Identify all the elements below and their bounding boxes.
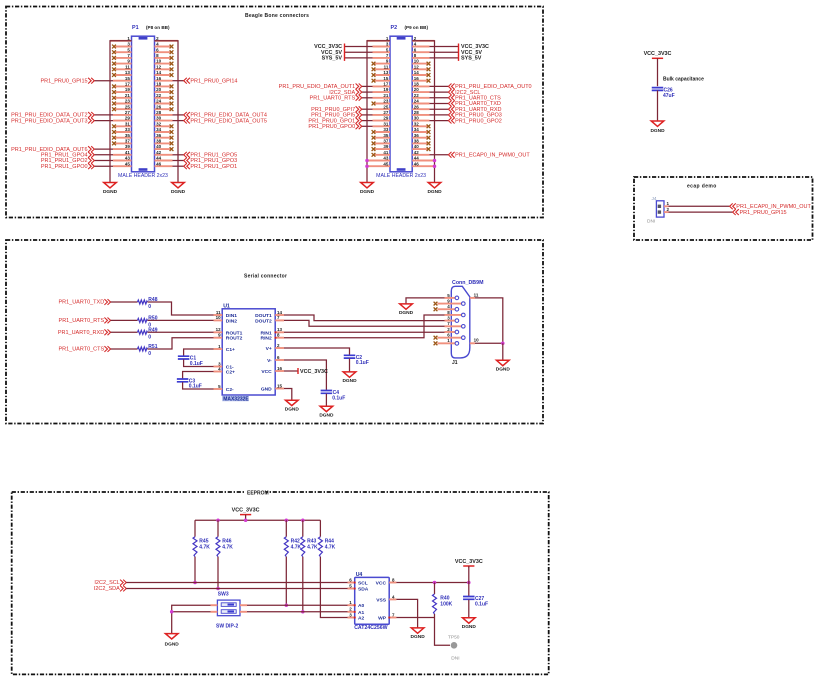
wire P2 pin1 ground rail [367, 41, 390, 183]
wire P2 pin 27 net PR1_PRU0_GPI5 [362, 114, 373, 116]
svg-text:28: 28 [156, 110, 162, 115]
svg-text:15: 15 [277, 383, 283, 388]
capacitor C3 0.1uF [177, 378, 202, 389]
junction R40 top [433, 581, 437, 585]
wire P1 pin 15 net PR1_PRU0_GPI15 [95, 80, 114, 82]
wire SW3 to U4 A0 [247, 604, 355, 606]
label PR1_UART0_TXD [58, 299, 110, 306]
svg-text:PR1_PRU0_GPO2: PR1_PRU0_GPO2 [455, 118, 502, 124]
wire P1 pin 42 net PR1_PRU1_GPO5 [173, 154, 184, 156]
wire P1 pin 27 net PR1_PRU_EDIO_DATA_OUT2 [95, 114, 114, 116]
svg-text:DGND: DGND [399, 310, 414, 316]
svg-text:4.7K: 4.7K [199, 544, 210, 550]
svg-text:PR1_UART0_CTS: PR1_UART0_CTS [58, 347, 104, 353]
label I2C2_SDA [94, 586, 127, 593]
svg-text:46: 46 [414, 161, 420, 166]
junction R46 [216, 587, 220, 591]
svg-text:33: 33 [383, 127, 389, 132]
svg-text:PR1_UART0_TXD: PR1_UART0_TXD [58, 300, 104, 306]
svg-text:4.7K: 4.7K [222, 544, 233, 550]
wire P2 pin 21 net PR1_UART0_RTS [362, 97, 373, 99]
svg-text:10: 10 [474, 338, 480, 343]
wire J1 pin11 shield to pin10 [475, 298, 503, 343]
svg-text:0.1uF: 0.1uF [356, 360, 369, 366]
ground DGND (U4 VSS) [411, 628, 426, 640]
svg-text:24: 24 [414, 99, 420, 104]
svg-text:20: 20 [414, 87, 420, 92]
capacitor C4 0.1uF [321, 390, 346, 401]
svg-text:TP50: TP50 [448, 635, 460, 641]
wire VCC_3V3C down to C27 [468, 566, 470, 596]
label PR1_UART0_TXD [448, 101, 500, 108]
svg-text:SDA: SDA [358, 587, 369, 593]
wire P2 pin 20 net I2C2_SCL [430, 91, 449, 93]
ground DGND (bulk capacitance) [650, 121, 665, 134]
svg-text:33: 33 [125, 127, 131, 132]
svg-text:34: 34 [156, 127, 162, 132]
svg-text:17: 17 [383, 82, 389, 87]
svg-text:16: 16 [277, 366, 283, 371]
junction R42 [285, 603, 289, 607]
svg-text:PR1_PRU0_GPI15: PR1_PRU0_GPI15 [41, 78, 88, 84]
wire P2 pin 42 net PR1_ECAP0_IN_PWM0_OUT [430, 154, 449, 156]
capacitor C26 47uF [652, 87, 675, 99]
svg-text:13: 13 [277, 327, 283, 332]
wire U4 VCC to VCC_3V3C [396, 582, 468, 584]
power label VCC_3V3C (U1) [298, 368, 328, 375]
svg-text:SYS_5V: SYS_5V [322, 56, 343, 62]
svg-text:29: 29 [383, 116, 389, 121]
wire P1 pin 29 net PR1_PRU_EDIO_DATA_OUT3 [95, 120, 114, 122]
wire P1 pin 16 net PR1_PRU0_GPI14 [173, 80, 184, 82]
svg-text:DOUT1: DOUT1 [255, 313, 272, 319]
label PR1_UART0_RTS [59, 318, 111, 325]
label PR1_PRU0_GPI14 [184, 78, 238, 85]
svg-text:J1: J1 [452, 360, 458, 366]
svg-text:31: 31 [125, 121, 131, 126]
op-amp U4 CAT24C256W body [355, 577, 390, 624]
svg-text:11: 11 [216, 310, 221, 315]
power label VCC_3V3C [314, 44, 344, 51]
svg-text:VSS: VSS [376, 597, 387, 603]
wire P2 pin 4 power VCC_3V3C [430, 46, 459, 48]
ground DGND (C4) [319, 406, 334, 418]
label PR1_UART0_RXD [58, 329, 111, 336]
wire C1 to U1 C1- [184, 359, 214, 366]
label PR1_PRU_EDIO_DATA_OUT4 [184, 112, 267, 119]
svg-text:A1: A1 [358, 610, 365, 616]
wire P2 pin2 ground rail [412, 41, 434, 183]
label PR1_UART0_CTS [58, 346, 110, 353]
wire PR1_UART0_CTS to R51 [111, 348, 138, 350]
svg-text:10: 10 [156, 59, 162, 64]
label PR1_PRU0_GPI5 [311, 112, 362, 119]
ground DGND under P2 left [360, 183, 375, 195]
wire P2 pin 28 net PR1_PRU0_GPO3 [430, 114, 449, 116]
wire rail to R45 [194, 520, 196, 537]
svg-text:Bulk capacitance: Bulk capacitance [663, 77, 704, 83]
svg-text:14: 14 [277, 310, 283, 315]
wire P2 pin 26 net PR1_UART0_RXD [430, 108, 449, 110]
svg-text:13: 13 [383, 70, 389, 75]
connector P1 body (MALE HEADER 2x23) [132, 36, 155, 172]
label PR1_PRU1_GPO3 [184, 158, 237, 165]
label PR1_PRU1_GPO4 [41, 152, 94, 159]
svg-text:30: 30 [156, 116, 162, 121]
svg-text:42: 42 [414, 150, 420, 155]
wire R51 to U1 ROUT2 (jog) [148, 338, 214, 349]
svg-text:V-: V- [267, 358, 272, 364]
svg-text:0: 0 [148, 304, 151, 310]
label PR1_PRU_EDIO_DATA_OUT0 [448, 84, 531, 91]
resistor R50 0 [138, 315, 158, 328]
svg-text:SCL: SCL [358, 581, 368, 587]
wire PR1_UART0_RTS to R50 [111, 319, 138, 321]
wire U1 VCC to power label [284, 370, 298, 372]
wire U1 C2+ loop [183, 372, 214, 379]
svg-text:DGND: DGND [285, 407, 300, 413]
svg-text:Conn_DB9M: Conn_DB9M [452, 280, 484, 286]
wire PR1_UART0_RXD to R49 [111, 331, 138, 333]
svg-text:MALE HEADER 2x23: MALE HEADER 2x23 [118, 173, 168, 179]
svg-text:37: 37 [383, 139, 389, 144]
svg-text:PR1_PRU1_GPO1: PR1_PRU1_GPO1 [190, 164, 237, 170]
svg-text:14: 14 [414, 70, 420, 75]
wire P2 pin 5 power VCC_5V [345, 51, 373, 53]
sheet box: Beagle Bone connectors [6, 7, 543, 218]
wire U1 V+ to C2 [284, 348, 350, 355]
svg-text:36: 36 [414, 133, 420, 138]
wire P2 pin 3 power VCC_3V3C [345, 46, 373, 48]
wire U1 C1+ loop [184, 349, 214, 356]
power label SYS_5V [459, 55, 482, 62]
resistor R48 0 [138, 297, 158, 310]
svg-text:35: 35 [383, 133, 389, 138]
svg-text:MAX3232E: MAX3232E [223, 396, 249, 402]
svg-text:DGND: DGND [650, 128, 665, 134]
junction C27 column [467, 581, 471, 585]
svg-text:0.1uF: 0.1uF [475, 601, 488, 607]
wire P2 pin 30 net PR1_PRU0_GPO2 [430, 120, 449, 122]
label PR1_ECAP0_IN_PWM0_OUT [730, 203, 812, 210]
svg-text:WP: WP [378, 616, 387, 622]
svg-text:36: 36 [156, 133, 162, 138]
svg-text:0.1uF: 0.1uF [332, 395, 345, 401]
svg-text:PR1_PRU0_GPI14: PR1_PRU0_GPI14 [190, 78, 237, 84]
wire U1 DOUT2 to J1 pin7 [284, 320, 445, 326]
label PR1_PRU0_GPI7 [311, 106, 362, 113]
svg-text:18: 18 [156, 82, 162, 87]
svg-text:PR1_PRU_EDIO_DATA_OUT5: PR1_PRU_EDIO_DATA_OUT5 [190, 118, 267, 124]
svg-text:DOUT2: DOUT2 [255, 318, 272, 324]
wire R46 to bus [217, 557, 219, 589]
label PR1_PRU1_GPO2 [41, 158, 94, 165]
svg-text:26: 26 [156, 104, 162, 109]
wire C2 to ground [349, 359, 351, 372]
power VCC_3V3C (EEPROM pull-ups) [232, 507, 260, 516]
svg-text:DGND: DGND [103, 189, 118, 195]
svg-text:32: 32 [156, 121, 162, 126]
svg-text:DNI: DNI [451, 656, 459, 662]
wire VCC_3V3C to C26 [657, 58, 659, 86]
sheet box: Serial connector [6, 240, 543, 424]
P1 pin stubs and numbers [110, 36, 178, 166]
svg-text:41: 41 [125, 150, 131, 155]
test point TP50 [448, 635, 460, 649]
svg-text:VCC: VCC [376, 581, 387, 587]
wire P1 pin 46 net PR1_PRU1_GPO1 [173, 165, 184, 167]
svg-text:100K: 100K [440, 602, 452, 608]
U1 pin stubs, numbers and names [214, 310, 285, 393]
svg-text:VCC_3V3C: VCC_3V3C [300, 369, 328, 375]
wire R40 to WP and TP50 [435, 614, 451, 645]
svg-text:C2+: C2+ [226, 370, 235, 376]
svg-text:10: 10 [216, 315, 222, 320]
label PR1_ECAP0_IN_PWM0_OUT [448, 152, 530, 159]
wire C4 to ground [325, 394, 327, 407]
svg-text:35: 35 [125, 133, 131, 138]
ground DGND (SW3) [165, 634, 180, 648]
svg-text:PR1_PRU0_GPI15: PR1_PRU0_GPI15 [740, 210, 787, 216]
svg-text:13: 13 [125, 70, 131, 75]
ground DGND under P1 right [171, 183, 186, 195]
wire R50 to U1 DIN2 [148, 319, 214, 321]
J1 pin circles, stubs and numbers [445, 292, 480, 345]
svg-text:Serial connector: Serial connector [244, 273, 287, 279]
svg-text:0: 0 [148, 351, 151, 357]
op-amp U1 MAX3232 body [222, 309, 275, 401]
junction pull-up rail [244, 518, 248, 522]
svg-text:(P8 on BB): (P8 on BB) [146, 25, 170, 30]
wire VCC to R40 [434, 583, 436, 595]
power label VCC_3V3C [459, 44, 489, 51]
label PR1_PRU_EDIO_DATA_OUT1 [279, 84, 362, 91]
wire R44 to U4 A2 [320, 557, 354, 618]
power VCC_3V3C (C27) [455, 559, 483, 568]
svg-text:44: 44 [156, 156, 162, 161]
svg-text:PR1_UART0_RXD: PR1_UART0_RXD [58, 330, 104, 336]
ground DGND (J1 shield) [496, 360, 511, 372]
svg-text:28: 28 [414, 110, 420, 115]
svg-text:C1+: C1+ [226, 347, 235, 353]
J1 no-connect X marks (pins 9,4,6,1) [434, 302, 445, 346]
wire R49 to U1 ROUT1 [148, 331, 214, 333]
ground DGND (J1 pin5) [399, 304, 414, 316]
wire rail to R44 [319, 520, 321, 537]
label PR1_PRU1_GPO5 [184, 152, 237, 159]
svg-text:29: 29 [125, 116, 131, 121]
wire J4 pin2 net PR1_PRU0_GPI15 [669, 211, 733, 213]
svg-text:21: 21 [383, 93, 389, 98]
label PR1_UART0_RXD [448, 106, 501, 113]
svg-text:DGND: DGND [165, 642, 180, 648]
svg-text:DGND: DGND [171, 189, 186, 195]
ground DGND under P1 left [103, 183, 118, 195]
label PR1_UART0_CTS [448, 95, 501, 102]
svg-text:(P9 on BB): (P9 on BB) [405, 25, 429, 30]
label I2C2_SDA [329, 89, 362, 96]
svg-text:DGND: DGND [342, 378, 357, 384]
capacitor C2 0.1uF [344, 355, 369, 366]
svg-text:SW DIP-2: SW DIP-2 [216, 623, 238, 629]
svg-text:32: 32 [414, 121, 420, 126]
wire rail to R43 [302, 520, 304, 537]
wire I2C2_SCL to U4 SCL [126, 582, 354, 584]
svg-text:15: 15 [125, 76, 131, 81]
wire U4 WP [396, 617, 434, 619]
wire P1 pin 41 net PR1_PRU1_GPO4 [95, 154, 114, 156]
connector J4 [656, 201, 664, 217]
label PR1_PRU_EDIO_DATA_OUT6 [11, 146, 94, 153]
svg-text:34: 34 [414, 127, 420, 132]
junction R43 [301, 610, 305, 614]
U4 pin stubs, numbers and names [348, 577, 397, 621]
wire C26 to ground [657, 90, 659, 121]
svg-text:22: 22 [414, 93, 420, 98]
sheet box: EEPROM [12, 492, 549, 674]
wire rail to R42 [285, 520, 287, 537]
svg-text:24: 24 [156, 99, 162, 104]
resistor R45 4.7K [193, 537, 210, 557]
junction pull-up rail [301, 518, 305, 522]
svg-text:PR1_UART0_RTS: PR1_UART0_RTS [310, 96, 356, 102]
wire P2 pin 29 net PR1_PRU0_GPO1 [362, 120, 373, 122]
svg-text:PR1_UART0_RTS: PR1_UART0_RTS [59, 318, 105, 324]
svg-text:RIN1: RIN1 [261, 330, 272, 336]
wire J1 shield to ground [502, 343, 504, 360]
resistor R43 4.7K [301, 537, 318, 557]
svg-text:C2-: C2- [226, 387, 234, 393]
label PR1_UART0_RTS [310, 95, 362, 102]
svg-text:20: 20 [156, 87, 162, 92]
svg-text:4.7K: 4.7K [307, 544, 318, 550]
wire P2 pin 6 power VCC_5V [430, 51, 459, 53]
svg-text:DIN1: DIN1 [226, 313, 237, 319]
svg-text:11: 11 [474, 292, 479, 297]
wire J1 pin5 to ground [406, 298, 445, 304]
svg-text:SYS_5V: SYS_5V [461, 56, 482, 62]
wire P2 pin 7 power SYS_5V [345, 57, 373, 59]
junction J1 shield [501, 342, 505, 346]
svg-text:CAT24C256W: CAT24C256W [354, 625, 387, 631]
wire P2 pin 8 power SYS_5V [430, 57, 459, 59]
resistor R51 0 [138, 344, 158, 357]
svg-text:38: 38 [156, 139, 162, 144]
svg-text:21: 21 [125, 93, 131, 98]
svg-text:DGND: DGND [462, 624, 477, 630]
svg-text:39: 39 [125, 144, 131, 149]
svg-text:23: 23 [383, 99, 389, 104]
svg-text:VCC: VCC [261, 369, 272, 375]
svg-text:V+: V+ [266, 346, 272, 352]
sheet box: ecap demo [634, 177, 813, 240]
P2 no-connect X marks left [372, 62, 376, 157]
svg-text:Beagle Bone connectors: Beagle Bone connectors [245, 13, 309, 19]
svg-text:25: 25 [125, 104, 131, 109]
wire SW3 pin lower-left [172, 611, 211, 613]
junction pull-up rail [216, 518, 220, 522]
wire SW3 left pins to ground [172, 605, 211, 633]
P2 no-connect X marks right [427, 62, 431, 151]
svg-text:VCC_3V3C: VCC_3V3C [455, 559, 483, 565]
svg-text:30: 30 [414, 116, 420, 121]
wire P2 pin 22 net PR1_UART0_CTS [430, 97, 449, 99]
svg-text:46: 46 [156, 161, 162, 166]
wire U4 VSS to ground [396, 599, 417, 628]
svg-text:DGND: DGND [411, 634, 426, 640]
ground DGND (C27) [462, 618, 477, 630]
wire J1 pin10 shield [475, 342, 503, 344]
svg-text:45: 45 [383, 161, 389, 166]
svg-text:I2C2_SDA: I2C2_SDA [94, 586, 120, 592]
svg-text:38: 38 [414, 139, 420, 144]
svg-text:VCC_3V3C: VCC_3V3C [644, 51, 672, 57]
label PR1_PRU0_GPO1 [308, 118, 361, 125]
svg-text:11: 11 [125, 64, 130, 69]
svg-text:22: 22 [156, 93, 162, 98]
wire P1 pin1 ground rail [110, 41, 132, 183]
wire C27 to ground [468, 600, 470, 618]
svg-text:27: 27 [125, 110, 131, 115]
svg-text:PR1_PRU_EDIO_DATA_OUT3: PR1_PRU_EDIO_DATA_OUT3 [11, 118, 88, 124]
svg-text:25: 25 [383, 104, 389, 109]
power label VCC_5V [459, 49, 483, 56]
svg-text:12: 12 [414, 64, 420, 69]
wire R45 to bus [194, 557, 196, 583]
label PR1_PRU0_GPI15 (ecap) [733, 209, 787, 216]
svg-text:0: 0 [148, 335, 151, 341]
svg-text:10: 10 [414, 59, 420, 64]
title: EEPROM [245, 490, 269, 497]
svg-text:16: 16 [156, 76, 162, 81]
wire P1 pin 43 net PR1_PRU1_GPO2 [95, 160, 114, 162]
label PR1_PRU0_GPO0 [308, 123, 361, 130]
svg-text:J4: J4 [652, 196, 657, 202]
svg-text:P2: P2 [391, 25, 398, 31]
svg-text:DIN2: DIN2 [226, 318, 237, 324]
svg-text:U1: U1 [223, 303, 230, 309]
switch SW3 SW DIP-2 [217, 600, 240, 616]
svg-text:RIN2: RIN2 [261, 336, 272, 342]
wire I2C2_SDA to U4 SDA [126, 588, 354, 590]
wire rail to R46 [217, 520, 219, 537]
power VCC_3V3C (bulk capacitance) [644, 51, 672, 60]
svg-text:EEPROM: EEPROM [247, 491, 269, 497]
wire C3 to U1 C2- [183, 382, 214, 389]
capacitor C27 0.1uF [463, 596, 488, 607]
power label VCC_5V [321, 49, 344, 56]
svg-text:44: 44 [414, 156, 420, 161]
junction P2 rail row 23 [365, 164, 369, 168]
svg-text:DNI: DNI [647, 218, 655, 224]
svg-text:DGND: DGND [319, 413, 334, 419]
resistor R46 4.7K [216, 537, 233, 557]
label PR1_PRU_EDIO_DATA_OUT2 [11, 112, 94, 119]
wire U1 RIN1 to J1 pin2 [284, 331, 445, 333]
ground DGND (C2) [342, 372, 357, 384]
svg-text:DGND: DGND [427, 189, 442, 195]
wire P1 pin 30 net PR1_PRU_EDIO_DATA_OUT5 [173, 120, 184, 122]
wire P2 pin 18 net PR1_PRU_EDIO_DATA_OUT0 [430, 85, 449, 87]
svg-text:42: 42 [156, 150, 162, 155]
svg-text:31: 31 [383, 121, 389, 126]
ground DGND (U1 GND) [285, 400, 300, 412]
ground DGND under P2 right [427, 183, 442, 195]
svg-text:26: 26 [414, 104, 420, 109]
label PR1_PRU1_GPO0 [41, 163, 94, 170]
resistor R40 100K [433, 594, 453, 614]
svg-text:40: 40 [156, 144, 162, 149]
